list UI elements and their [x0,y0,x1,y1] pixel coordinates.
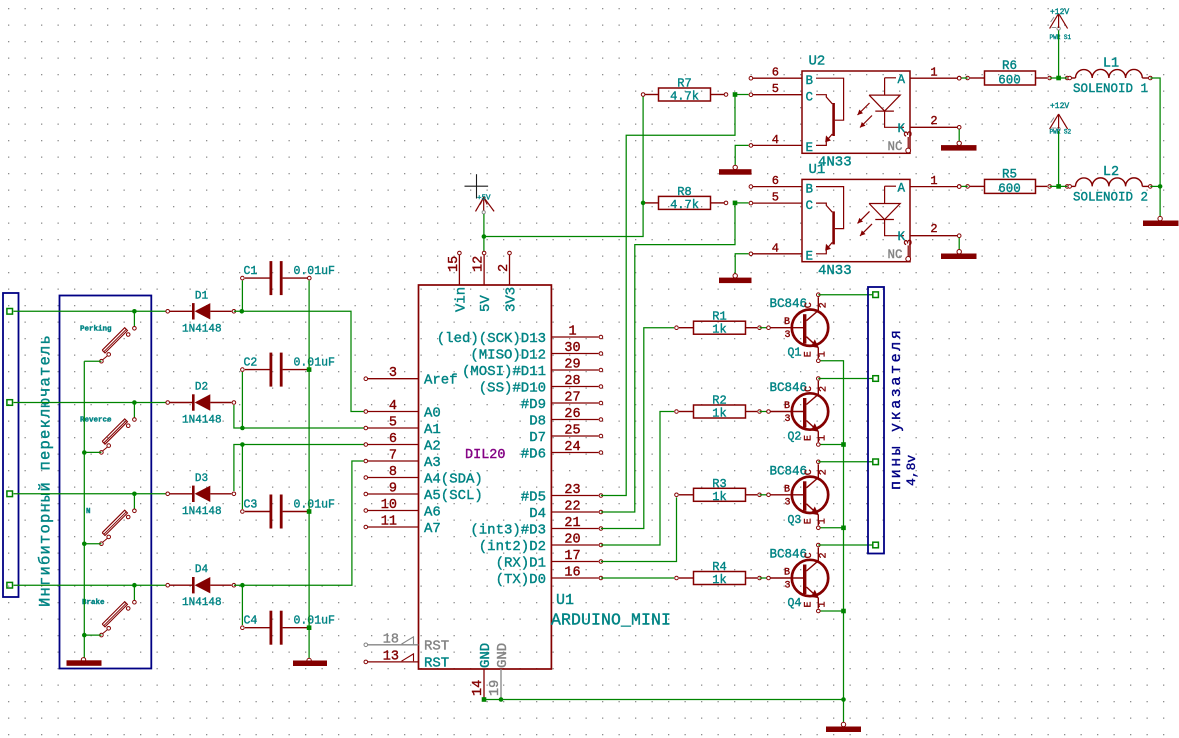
junction L1 left [1056,76,1061,81]
pin 12 (5V) U1 top [482,251,486,285]
svg-text:4N33: 4N33 [818,263,852,279]
wire Q4 emitter to rail [821,610,844,612]
label 1N4148 (D3) [182,506,222,518]
pin 16 ((TX)D0) U1 [551,576,602,580]
pin number 3 (Q2) [785,414,791,425]
pin number 26 [564,407,580,422]
pin label (int3)#D3 [470,523,546,539]
svg-text:1: 1 [818,351,829,357]
svg-text:SOLENOID 1: SOLENOID 1 [1073,82,1148,96]
svg-text:B: B [806,74,814,88]
svg-text:(MISO)D12: (MISO)D12 [470,348,546,364]
svg-text:28: 28 [564,374,580,389]
pin 28 ((SS)#D10) U1 [551,385,602,389]
label Perking [80,325,112,333]
wire D4 row to A3 [234,461,364,585]
wire Q1 collector to connector [818,294,872,296]
svg-text:R3: R3 [712,477,726,491]
wire Q4 collector to connector [818,544,872,546]
diode D2 [166,394,236,410]
inductor L1 SOLENOID 1 [1068,69,1152,79]
label 4.7k (R7) [670,90,699,104]
label DIL20 [465,448,506,463]
svg-text:2: 2 [497,264,512,272]
svg-text:2: 2 [819,302,830,308]
pin label C (Q4) [804,552,815,558]
transistor Q4 BC846 [767,543,829,613]
wire D3 to A2 [234,445,366,492]
svg-text:E: E [804,518,815,524]
svg-text:пины указателя: пины указателя [888,328,905,490]
wire +5V rail to R8/R7 [484,95,643,237]
svg-text:D1: D1 [195,290,209,302]
junction switch chain [82,633,87,638]
junction emitter rail Q2 [841,442,846,447]
pin number 23 [564,483,580,498]
svg-text:Perking: Perking [80,325,112,333]
svg-text:1: 1 [818,435,829,441]
pin number 5 (U1) [772,191,779,205]
pin label E (Q4) [804,601,815,607]
label 0.01uF (C4) [294,615,336,628]
svg-text:5: 5 [772,82,779,96]
ground solenoids [1143,216,1179,226]
svg-text:3V3: 3V3 [504,287,520,312]
svg-text:A6: A6 [424,505,441,521]
connector P1 pin 3 [7,491,13,497]
svg-text:D8: D8 [529,414,546,430]
pin number 11 [381,515,397,530]
pin label K (U2) [898,122,906,136]
optocoupler U1 4N33 [749,179,961,261]
svg-text:8: 8 [389,465,397,480]
wire Q1 emitter to rail [821,361,844,700]
svg-text:3: 3 [904,239,916,246]
wire C4 to D4 node [241,585,243,625]
pin number 1 (U2) [930,66,937,80]
svg-text:1N4148: 1N4148 [182,415,222,427]
svg-text:4.7k: 4.7k [670,198,699,212]
label R6 [1002,59,1017,73]
wire +5V to 5V pin [483,214,485,252]
junction switch 3 common [132,492,137,497]
pin 11 (A7) U1 [364,525,419,529]
label N [86,508,91,516]
pin number 1 (Q4) [818,601,829,607]
pin 1 ((led)(SCK)D13) U1 [551,335,602,339]
pin number 10 [381,498,397,513]
svg-text:6: 6 [772,66,779,80]
pin label (TX)D0 [496,572,546,588]
svg-text:2: 2 [819,386,830,392]
junction D4/C4 [240,583,245,588]
label 1k (R1) [712,323,726,337]
ground E (U1) [719,274,752,284]
svg-text:L1: L1 [1103,57,1119,72]
switch box outline [60,296,152,669]
svg-text:3: 3 [785,497,791,508]
ground capacitors [293,658,327,666]
pin label NC (U2) [888,140,903,154]
junction emitter rail Q3 [841,526,846,531]
svg-text:B: B [806,183,814,197]
pin 6 (A2) U1 [364,443,419,447]
wire E (U1) to ground [735,254,748,276]
pin 4 (A0) U1 [364,410,419,414]
pin number 25 [564,424,580,439]
wire Q2 collector to connector [818,378,872,380]
svg-text:R6: R6 [1002,59,1017,73]
pin number 1 (Q3) [818,518,829,524]
svg-text:20: 20 [564,533,580,548]
svg-text:24: 24 [564,440,580,455]
pin number 20 [564,533,580,548]
junction A2 node [240,442,245,447]
pin label A6 [424,505,441,521]
pin 7 (A3) U1 [364,459,419,463]
svg-text:12: 12 [472,256,487,272]
pin label (led)(SCK)D13 [437,331,546,347]
label BC846 (Q3) [770,464,808,478]
pin 17 ((RX)D1) U1 [551,560,602,564]
svg-text:3: 3 [389,366,397,381]
pin number 2 [497,264,512,272]
svg-text:1k: 1k [712,490,726,504]
pin number 8 [389,465,397,480]
svg-text:C3: C3 [244,499,258,512]
pin label A2 [424,439,441,455]
pin number 3 (Q3) [785,497,791,508]
svg-text:1: 1 [818,518,829,524]
svg-text:B: B [784,317,790,328]
wire row 4 connector to diode [14,584,168,586]
diode D3 [166,486,236,502]
label +5V [477,195,491,203]
svg-text:16: 16 [564,566,580,581]
wire +12V(1) to L1 node [1058,31,1060,79]
svg-text:#D5: #D5 [521,490,546,506]
pin label #D6 [521,447,546,463]
connector P2 pin 1 [873,292,879,298]
resistor R6 [957,71,1069,85]
label D3 [195,473,208,485]
ground K (U1) [941,250,977,260]
label 4.7k (R8) [670,198,699,212]
pin number 22 [564,500,580,515]
wire row 2 connector to diode [14,402,168,404]
svg-text:DIL20: DIL20 [465,448,506,463]
connector P1 pin 1 [7,309,13,315]
pin 27 (#D9) U1 [551,401,602,405]
pin label C (Q1) [804,302,815,308]
pin 9 (A5(SCL)) U1 [364,492,419,496]
label Ингибиторный переключатель [37,334,55,607]
wire row 1 connector to diode [14,310,168,312]
junction +5V rail [482,234,487,239]
pin number 2 (Q2) [819,386,830,392]
wire Q2 emitter to rail [821,444,844,446]
label PWR ref (2) [1050,129,1072,136]
label BC846 (Q2) [770,381,808,395]
capacitor C3 [241,495,309,529]
svg-text:1k: 1k [712,323,726,337]
pin number 12 [472,256,487,272]
svg-text:D3: D3 [195,473,208,485]
pin number 3 (U2) [904,131,916,138]
svg-text:2: 2 [819,469,830,475]
svg-text:600: 600 [998,74,1021,88]
pin label B (U2) [806,74,814,88]
junction L2 left [1056,184,1061,189]
junction A1 node [240,426,245,431]
label 1N4148 (D2) [182,415,222,427]
svg-text:B: B [784,484,790,495]
resistor R1 [675,321,762,334]
svg-text:BC846: BC846 [770,464,808,478]
pin label B (Q2) [784,401,790,412]
svg-text:9: 9 [389,482,397,497]
svg-text:5V: 5V [478,295,494,312]
pin number 16 [564,566,580,581]
svg-text:U1: U1 [809,162,826,178]
svg-text:ARDUINO_MINI: ARDUINO_MINI [551,611,671,630]
pin label E (Q1) [804,351,815,357]
resistor R2 [675,405,762,418]
pin 26 (D8) U1 [551,418,602,422]
label L2 [1103,165,1119,180]
pin number 19 [488,680,503,696]
pin label (SS)#D10 [479,381,546,397]
wire R7 to U2 pin5 [735,94,749,96]
pin 19 (GND) U1 [499,669,504,702]
svg-text:Ингибиторный переключатель: Ингибиторный переключатель [37,334,55,607]
label D1 [195,290,209,302]
label 600 (R6) [998,74,1021,88]
svg-text:R8: R8 [677,185,691,199]
svg-text:Q1: Q1 [788,347,802,360]
pin 8 (A4(SDA)) U1 [364,476,419,480]
pin 15 (Vin) U1 top [458,251,462,285]
junction R8 left [641,201,646,206]
svg-text:C4: C4 [244,615,258,628]
pin label (int2)D2 [479,539,546,555]
svg-text:C1: C1 [244,265,258,278]
wire +12V(2) to L2 node [1058,131,1060,186]
svg-text:(int3)#D3: (int3)#D3 [470,523,546,539]
svg-text:R4: R4 [712,560,726,574]
svg-text:11: 11 [381,515,397,530]
svg-text:D4: D4 [529,506,546,522]
pin number 21 [564,516,580,531]
wire D5(23) to U2 pin5 net [601,95,735,496]
svg-text:(RX)D1: (RX)D1 [496,556,546,572]
svg-text:10: 10 [381,498,397,513]
svg-text:C: C [804,302,815,308]
svg-text:NC: NC [888,140,903,154]
svg-text:15: 15 [447,256,462,272]
diode D4 [166,577,236,593]
svg-text:22: 22 [564,500,580,515]
svg-text:A: A [898,182,906,196]
resistor R3 [675,488,762,501]
pin number 9 [389,482,397,497]
pin number 3 [389,366,397,381]
pin number 1 (Q1) [818,351,829,357]
svg-text:6: 6 [772,174,779,188]
svg-text:C: C [806,199,814,213]
svg-text:B: B [784,401,790,412]
wire R1 to Q1 base [760,327,769,329]
label SOLENOID 2 [1073,191,1148,205]
label R7 [677,77,691,91]
pin number 29 [564,358,580,373]
svg-text:(int2)D2: (int2)D2 [479,539,546,555]
junction GND pin 14 [482,697,487,702]
label 600 (R5) [998,182,1021,196]
transistor Q1 BC846 [767,293,829,363]
label R4 [712,560,726,574]
capacitor C1 [241,261,309,295]
svg-text:+12V: +12V [1050,8,1069,17]
connector P1 pin 2 [7,400,13,406]
pin number 18 [383,632,399,647]
label L1 [1103,57,1119,72]
switch SW4 Brake [100,585,137,637]
pin number 7 [389,449,397,464]
pin number 28 [564,374,580,389]
pin 30 ((MISO)D12) U1 [551,352,602,356]
wire L1 right down [1150,78,1160,217]
svg-text:PWR S2: PWR S2 [1050,129,1072,136]
pin label D4 [529,506,546,522]
svg-text:Vin: Vin [453,287,469,312]
ground bottom [826,700,861,733]
connector P1 pin 4 [7,582,13,588]
svg-text:E: E [804,601,815,607]
pin number 13 [383,649,399,664]
pin label C (Q2) [804,386,815,392]
wire cap common vertical [308,281,310,659]
pin label C (U2) [806,91,814,105]
svg-text:(MOSI)#D11: (MOSI)#D11 [462,364,546,380]
transistor Q2 BC846 [767,377,829,447]
pin label A1 [424,422,441,438]
pin label A (U2) [898,73,906,87]
wire D0(16) to R4 [601,577,674,579]
pin label A0 [424,406,441,422]
wire D4(22) to U1 pin5 net [601,203,735,512]
pin 18 (RST) U1 [364,637,419,647]
svg-text:1: 1 [930,174,937,188]
pin number 1 (Q2) [818,435,829,441]
svg-text:5: 5 [389,416,397,431]
pin number 2 (U1) [930,222,937,236]
svg-text:BC846: BC846 [770,297,808,311]
label ARDUINO_MINI [551,611,671,630]
pin number 17 [564,549,580,564]
label Q3 [788,514,802,527]
svg-text:6: 6 [389,432,397,447]
pin 22 (D4) U1 [551,510,602,514]
pin label 5V [478,295,494,312]
pin label B (U1) [806,183,814,197]
svg-text:(led)(SCK)D13: (led)(SCK)D13 [437,331,546,347]
label U1 (arduino) [556,592,574,609]
junction R8 right [733,201,738,206]
label 1k (R4) [712,573,726,587]
wire R6 to L [1050,77,1068,79]
cursor crosshair [465,174,489,198]
svg-text:E: E [806,141,814,155]
svg-text:D4: D4 [195,564,209,576]
label 4N33 (U2) [818,155,852,171]
svg-text:RST: RST [424,639,449,655]
svg-text:7: 7 [389,449,397,464]
wire R4 to Q4 base [760,577,769,579]
wire E (U2) to ground [735,145,748,168]
wire switch common chain [83,361,85,660]
pin 14 (GND) U1 [483,669,485,700]
pin 2 (3V3) U1 top [508,251,512,285]
pin label E (Q2) [804,435,815,441]
svg-text:14: 14 [471,680,486,696]
svg-text:19: 19 [488,680,503,696]
label Q2 [788,431,802,444]
junction D1/C1 [240,309,245,314]
svg-text:D2: D2 [195,382,208,394]
pin 20 ((int2)D2) U1 [551,543,602,547]
wire R5 to L [1050,185,1068,187]
svg-text:B: B [784,568,790,579]
svg-text:3: 3 [785,330,791,341]
wire K (U1) to ground [958,238,960,253]
wire C3 to A2 node [241,445,243,510]
pin number 6 (U1) [772,174,779,188]
wire opto A to R5 [959,185,967,187]
label R1 [712,310,726,324]
wire K (U2) to ground [958,129,960,144]
pin label A3 [424,455,441,471]
label D2 [195,382,208,394]
junction C2 common [307,367,312,372]
pin number 1 (U1) [930,174,937,188]
wire D2(20) to R2 [601,412,674,546]
svg-text:R7: R7 [677,77,691,91]
svg-text:A0: A0 [424,406,441,422]
svg-text:4: 4 [389,399,397,414]
junction switch chain [82,542,87,547]
pin label 3V3 [504,287,520,312]
svg-text:(SS)#D10: (SS)#D10 [479,381,546,397]
wire opto A to R6 [959,77,967,79]
svg-text:21: 21 [564,516,580,531]
pin label D8 [529,414,546,430]
pin label A5(SCL) [424,488,483,504]
svg-text:5: 5 [772,191,779,205]
pin label RST (13) [424,656,449,672]
pin label (RX)D1 [496,556,546,572]
svg-text:A7: A7 [424,521,441,537]
label Q4 [788,597,802,610]
junction switch 1 common [132,309,137,314]
power +5V symbol [476,197,495,214]
pin label A4(SDA) [424,472,483,488]
svg-text:Aref: Aref [424,373,458,389]
wire switch 3 output [84,543,101,545]
svg-text:0.01uF: 0.01uF [294,357,336,370]
svg-text:26: 26 [564,407,580,422]
pin number 1 [568,325,576,340]
